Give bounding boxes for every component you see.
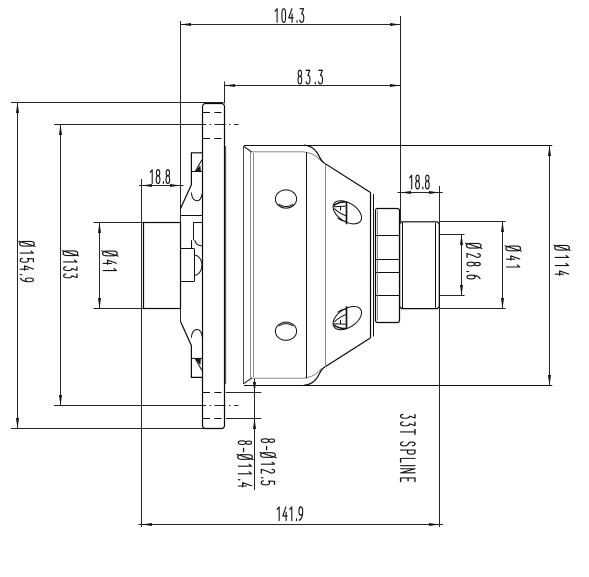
callout 8-dia12.5 / 8-dia11.4 — [226, 378, 261, 490]
flange bolt hole bottom (hidden, dashed) — [203, 392, 225, 394]
upper bolt lug — [181, 153, 203, 209]
window hole top — [275, 190, 296, 208]
text 33T SPLINE — [401, 414, 415, 481]
bolt hole centerlines (dash-dot) — [195, 124, 239, 126]
text 18.8 right — [410, 175, 429, 189]
text dia154.9 — [19, 241, 35, 282]
case seam — [306, 152, 308, 378]
text dia133 — [62, 251, 78, 278]
dimension dia 114 — [244, 146, 552, 386]
cross pin boss half-round — [194, 255, 202, 275]
text dia114 — [554, 245, 570, 275]
text 18.8 left — [150, 170, 169, 184]
dimension dia 28.6 — [440, 235, 465, 296]
output journal right (33T spline shaft end) — [400, 222, 440, 309]
dimension 104.3 — [181, 16, 401, 322]
hub steps left of flange — [181, 216, 203, 282]
body left band with chamfers — [244, 146, 322, 384]
oil scoop top — [329, 196, 366, 229]
text dia28.6 — [466, 243, 482, 279]
lower cone edge and bolt lug — [181, 322, 203, 378]
spline collar — [375, 209, 399, 323]
dimension 18.8 right — [398, 186, 443, 527]
dimension dia 154.9 — [11, 103, 224, 429]
text 104.3 — [275, 9, 304, 23]
text 8-dia12.5 — [260, 439, 276, 485]
window hole bottom — [275, 322, 296, 340]
text 141.9 — [277, 507, 303, 521]
dimension 18.8 left — [139, 179, 184, 527]
text 8-dia11.4 — [237, 441, 253, 487]
dimension 141.9 — [139, 523, 444, 526]
dimension dia 41 right — [440, 222, 506, 309]
journal left — [144, 223, 181, 309]
dimension dia 133 — [54, 125, 195, 406]
body silhouette bottom corner and cone edge — [304, 338, 370, 385]
text dia41 right — [505, 246, 521, 267]
dimension 83.3 — [225, 82, 401, 104]
flange bolt hole top (hidden, dashed) — [203, 112, 225, 114]
cone tangent line — [325, 163, 327, 367]
body left face behind flange — [225, 146, 227, 384]
oil scoop bottom — [329, 302, 366, 335]
cone right face — [370, 192, 372, 338]
flange (ring gear mounting flange) — [203, 104, 225, 429]
dimension dia 41 left — [94, 223, 181, 309]
text 83.3 — [298, 70, 323, 84]
body silhouette top corner and cone edge — [304, 145, 370, 192]
text dia41 left — [102, 251, 118, 271]
